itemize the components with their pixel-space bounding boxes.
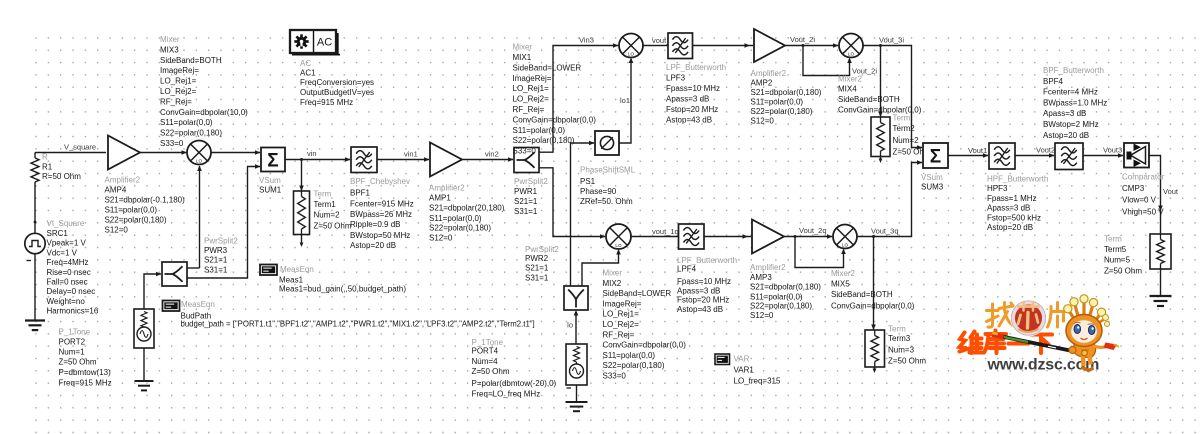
svg-text:Z=50 Ohm: Z=50 Ohm — [1104, 267, 1142, 276]
svg-text:S22=polar(0,180): S22=polar(0,180) — [751, 107, 813, 116]
svg-text:RF_Rej=: RF_Rej= — [160, 97, 192, 106]
svg-text:S22=polar(0,180): S22=polar(0,180) — [105, 216, 167, 225]
mixer MIX5 — [831, 225, 915, 311]
svg-text:PORT2: PORT2 — [59, 338, 86, 347]
svg-text:SUM1: SUM1 — [259, 186, 282, 195]
wire AMP1 to PWR1 net vin2 — [462, 159, 513, 161]
svg-text:vout_1q: vout_1q — [652, 227, 679, 236]
watermark magnifier with xin — [1011, 301, 1045, 335]
wire PWR3 bottom output to SUM1 input 2 — [187, 167, 260, 279]
svg-text:ConvGain=dbpolar(0,0): ConvGain=dbpolar(0,0) — [513, 115, 597, 124]
svg-text:MeasEqn: MeasEqn — [280, 265, 314, 274]
svg-text:ConvGain=dbpolar(10,0): ConvGain=dbpolar(10,0) — [160, 108, 248, 117]
svg-text:Term: Term — [893, 114, 911, 123]
svg-text:Fstop=20 MHz: Fstop=20 MHz — [677, 296, 729, 305]
svg-text:LPF4: LPF4 — [677, 264, 697, 273]
svg-text:Fcenter=4 MHz: Fcenter=4 MHz — [1043, 88, 1098, 97]
svg-text:Meas1=bud_gain(,,50,budget_pat: Meas1=bud_gain(,,50,budget_path) — [279, 284, 406, 293]
svg-text:LO_Rej2=: LO_Rej2= — [513, 95, 550, 104]
wire PORT2 to PWR3 input — [144, 274, 161, 309]
svg-text:Freq=LO_freq MHz: Freq=LO_freq MHz — [472, 389, 541, 398]
wire R1 branch down to SRC1 — [34, 153, 36, 159]
svg-text:BPF4: BPF4 — [1043, 77, 1064, 86]
svg-text:VSum: VSum — [921, 173, 943, 182]
svg-text:LO_Rej2=: LO_Rej2= — [603, 320, 640, 329]
svg-text:R=50 Ohm: R=50 Ohm — [42, 172, 81, 181]
svg-text:vin: vin — [307, 149, 317, 158]
wire MIX1 to LPF3 — [643, 45, 668, 47]
svg-text:LPF3: LPF3 — [666, 74, 686, 83]
svg-text:SUM3: SUM3 — [921, 183, 944, 192]
svg-text:MIX1: MIX1 — [513, 53, 532, 62]
svg-text:R: R — [42, 153, 48, 162]
svg-text:Term: Term — [314, 190, 332, 199]
svg-text:LO_Rej1=: LO_Rej1= — [160, 77, 197, 86]
svg-text:AC: AC — [317, 37, 332, 49]
svg-text:OutputBudgetIV=yes: OutputBudgetIV=yes — [300, 88, 374, 97]
wire CMP3 output to Term5 net Vout — [1149, 156, 1161, 235]
svg-text:HPF3: HPF3 — [987, 184, 1008, 193]
wire MIX2 to LPF4 net vout_1q — [631, 236, 679, 238]
svg-text:Term1: Term1 — [314, 200, 337, 209]
svg-text:S12=0: S12=0 — [750, 311, 774, 320]
svg-text:PhaseShiftSML: PhaseShiftSML — [580, 166, 636, 175]
wire PORT4 to ground — [576, 385, 578, 402]
comparator CMP3 — [1122, 143, 1165, 217]
svg-text:S21=dbpolar(0,180): S21=dbpolar(0,180) — [751, 88, 822, 97]
svg-text:Num=3: Num=3 — [888, 346, 915, 355]
port PORT4 P_1Tone — [472, 338, 588, 399]
svg-text:VAR: VAR — [734, 355, 750, 364]
svg-text:Vpeak=1 V: Vpeak=1 V — [47, 239, 87, 248]
svg-text:S21=1: S21=1 — [514, 197, 538, 206]
svg-text:LPF_Butterworth: LPF_Butterworth — [666, 63, 726, 72]
wire SUM3 output to HPF3 net Vout1 — [948, 155, 988, 157]
svg-text:Vdc=1 V: Vdc=1 V — [47, 248, 78, 257]
svg-text:Num=4: Num=4 — [472, 357, 499, 366]
svg-text:Vt_Square: Vt_Square — [47, 219, 85, 228]
wire PWR1 bottom output to MIX2 — [539, 168, 605, 237]
svg-text:S31=1: S31=1 — [525, 274, 549, 283]
svg-text:S11=polar(0,0): S11=polar(0,0) — [603, 351, 656, 360]
svg-text:BWstop=50 MHz: BWstop=50 MHz — [350, 231, 410, 240]
svg-text:P=polar(dbmtow(-20),0): P=polar(dbmtow(-20),0) — [472, 379, 557, 388]
svg-text:Phase=90: Phase=90 — [580, 187, 617, 196]
svg-text:S11=polar(0,0): S11=polar(0,0) — [105, 206, 158, 215]
svg-text:Astop=20 dB: Astop=20 dB — [987, 223, 1033, 232]
wire PWR2 left output to PS1 — [571, 143, 595, 286]
svg-text:SideBand=LOWER: SideBand=LOWER — [513, 63, 582, 72]
svg-text:Vin3: Vin3 — [579, 36, 594, 45]
svg-text:S21=dbpolar(20,180): S21=dbpolar(20,180) — [429, 204, 505, 213]
svg-text:Term: Term — [1104, 235, 1122, 244]
svg-text:PORT4: PORT4 — [472, 347, 499, 356]
svg-text:S21=dbpolar(-0.1,180): S21=dbpolar(-0.1,180) — [105, 196, 186, 205]
svg-text:FreqConversion=yes: FreqConversion=yes — [300, 78, 374, 87]
svg-text:Mixer: Mixer — [603, 269, 623, 278]
svg-text:Z=50 Ohm: Z=50 Ohm — [888, 356, 926, 365]
svg-text:S22=polar(0,180): S22=polar(0,180) — [603, 361, 665, 370]
wire AMP3 to MIX5 net Vout_2q — [784, 236, 832, 238]
svg-text:Vout_3q: Vout_3q — [871, 227, 899, 236]
svg-text:R1: R1 — [42, 163, 53, 172]
band-pass filter BPF1 — [350, 147, 414, 250]
svg-text:LO_freq=315: LO_freq=315 — [734, 377, 781, 386]
svg-text:AC: AC — [300, 59, 311, 68]
svg-text:Amplifier2: Amplifier2 — [429, 184, 465, 193]
svg-text:lo: lo — [567, 321, 573, 330]
resistor R1 — [31, 153, 81, 183]
svg-text:BWstop=2 MHz: BWstop=2 MHz — [1043, 120, 1099, 129]
svg-text:LO_Rej2=: LO_Rej2= — [160, 87, 197, 96]
svg-text:S31=1: S31=1 — [514, 207, 538, 216]
svg-text:Amplifier2: Amplifier2 — [751, 69, 787, 78]
svg-text:Term3: Term3 — [888, 334, 911, 343]
svg-text:PS1: PS1 — [580, 177, 596, 186]
wire BPF1 to AMP1 net vin1 — [377, 159, 429, 161]
wire AMP4 output to MIX3 — [140, 152, 186, 154]
svg-text:Z=50 Ohm: Z=50 Ohm — [59, 358, 97, 367]
wire MIX4 output to SUM3 net Vout_3i — [863, 46, 922, 148]
svg-text:S22=polar(0,180): S22=polar(0,180) — [750, 302, 812, 311]
wire PORT4 to PWR2 net lo — [575, 312, 577, 345]
wire PWR2 right output to MIX2 LO — [582, 251, 619, 287]
svg-text:Fstop=500 kHz: Fstop=500 kHz — [987, 213, 1041, 222]
svg-text:Σ: Σ — [930, 146, 941, 167]
svg-text:Term2: Term2 — [893, 124, 916, 133]
svg-text:vin1: vin1 — [404, 150, 418, 159]
svg-text:Vout_2i: Vout_2i — [790, 35, 815, 44]
svg-text:PWR1: PWR1 — [514, 187, 538, 196]
svg-text:S11=polar(0,0): S11=polar(0,0) — [751, 98, 804, 107]
svg-text:Freq=915 MHz: Freq=915 MHz — [300, 98, 353, 107]
port PORT2 P_1Tone — [59, 309, 155, 388]
svg-text:S22=polar(0,180): S22=polar(0,180) — [429, 224, 491, 233]
wire LPF3 to AMP2 — [692, 45, 753, 47]
svg-text:S11=polar(0,0): S11=polar(0,0) — [513, 126, 566, 135]
svg-text:HPF_Butterworth: HPF_Butterworth — [987, 175, 1048, 184]
terminator Term2 — [871, 114, 931, 157]
svg-text:S21=1: S21=1 — [204, 256, 228, 265]
svg-text:LO: LO — [615, 243, 622, 248]
svg-text:Num=2: Num=2 — [893, 136, 920, 145]
svg-text:AMP1: AMP1 — [429, 194, 451, 203]
svg-text:Num=5: Num=5 — [1104, 256, 1131, 265]
watermark text zhao (find) — [987, 303, 1014, 328]
amplifier AMP2 — [751, 29, 822, 126]
svg-text:RF_Rej=: RF_Rej= — [603, 330, 635, 339]
svg-text:PwrSplit2: PwrSplit2 — [204, 237, 238, 246]
svg-text:P=dbmtow(13): P=dbmtow(13) — [59, 368, 112, 377]
svg-text:PWR3: PWR3 — [204, 246, 228, 255]
wire Term2 branch — [880, 46, 882, 118]
svg-text:Harmonics=16: Harmonics=16 — [47, 307, 99, 316]
source SRC1 Vt_Square — [25, 219, 99, 316]
svg-text:LO: LO — [196, 158, 203, 163]
power splitter PWR2 — [525, 245, 588, 310]
svg-text:Astop=43 dB: Astop=43 dB — [666, 115, 712, 124]
svg-text:lo1: lo1 — [620, 96, 630, 105]
svg-text:BPF1: BPF1 — [350, 189, 371, 198]
svg-text:Amplifier2: Amplifier2 — [105, 176, 141, 185]
wire PORT2 to ground — [143, 348, 145, 381]
svg-text:LO_Rej1=: LO_Rej1= — [513, 84, 550, 93]
svg-text:Term5: Term5 — [1104, 245, 1127, 254]
wire MIX5 output to SUM3 net Vout_3q — [857, 163, 922, 237]
svg-text:Vout3: Vout3 — [1103, 146, 1122, 155]
svg-text:LO: LO — [628, 51, 635, 56]
svg-text:Term: Term — [888, 324, 906, 333]
svg-text:Apass=3 dB: Apass=3 dB — [666, 95, 709, 104]
svg-text:SideBand=BOTH: SideBand=BOTH — [838, 95, 900, 104]
measurement equation BudPath — [163, 300, 535, 329]
power splitter PWR3 — [162, 237, 238, 287]
svg-text:Vout1: Vout1 — [968, 146, 987, 155]
svg-text:Num=1: Num=1 — [59, 348, 86, 357]
svg-text:ImageRej=: ImageRej= — [160, 66, 199, 75]
svg-text:S11=polar(0,0): S11=polar(0,0) — [750, 292, 803, 301]
svg-text:AMP3: AMP3 — [750, 273, 772, 282]
power splitter PWR1 — [514, 148, 548, 217]
svg-text:Vout_2q: Vout_2q — [799, 226, 827, 235]
svg-text:S12=0: S12=0 — [751, 117, 775, 126]
wire MIX5 LO feedback branch — [795, 237, 844, 268]
wire AMP2 to MIX4 net Vout_2i — [784, 45, 838, 47]
svg-text:MIX3: MIX3 — [160, 45, 179, 54]
svg-text:V_square: V_square — [64, 143, 96, 152]
watermark mascot — [1064, 295, 1119, 371]
svg-text:Vhigh=50 V: Vhigh=50 V — [1122, 208, 1164, 217]
wire PS1 output to MIX1 LO net lo1 — [619, 59, 631, 143]
phase shifter PS1 — [580, 131, 636, 206]
svg-text:S11=polar(0,0): S11=polar(0,0) — [160, 118, 213, 127]
ground below Term5 — [1150, 295, 1172, 297]
wire MIX4 LO feedback branch — [803, 46, 850, 76]
svg-text:S31=1: S31=1 — [204, 265, 228, 274]
svg-text:Σ: Σ — [267, 150, 278, 171]
svg-text:VSum: VSum — [259, 176, 281, 185]
svg-text:Astop=20 dB: Astop=20 dB — [1043, 131, 1089, 140]
mixer MIX4 — [838, 34, 922, 115]
svg-text:LO: LO — [848, 51, 855, 56]
wire Term5 to ground — [1160, 269, 1162, 296]
wire PWR3 top output — [187, 267, 200, 269]
svg-text:Fpass=10 MHz: Fpass=10 MHz — [666, 84, 720, 93]
svg-text:Mixer: Mixer — [513, 43, 533, 52]
wire MIX3 LO riser from PWR3 — [199, 166, 201, 268]
svg-text:PwrSplit2: PwrSplit2 — [525, 245, 559, 254]
wire MIX3 output to SUM1 — [211, 152, 260, 154]
svg-text:Apass=3 dB: Apass=3 dB — [987, 204, 1030, 213]
svg-text:VAR1: VAR1 — [734, 366, 755, 375]
svg-text:Fpass=10 MHz: Fpass=10 MHz — [677, 277, 731, 286]
terminator Term1 — [294, 190, 352, 235]
AC simulation controller AC1 — [290, 30, 374, 107]
svg-text:AC1: AC1 — [300, 69, 316, 78]
ground below PORT2 — [135, 380, 154, 382]
svg-text:Delay=0 nsec: Delay=0 nsec — [47, 287, 96, 296]
svg-text:MIX2: MIX2 — [603, 279, 622, 288]
low-pass filter LPF4 — [677, 224, 737, 314]
svg-text:PWR2: PWR2 — [525, 254, 549, 263]
svg-text:BWpass=26 MHz: BWpass=26 MHz — [350, 210, 412, 219]
svg-text:BWpass=1.0 MHz: BWpass=1.0 MHz — [1043, 98, 1107, 107]
svg-text:Mixer2: Mixer2 — [831, 269, 856, 278]
svg-text:BPF_Chebyshev: BPF_Chebyshev — [350, 177, 410, 186]
mixer MIX1 — [513, 34, 644, 156]
summer SUM3 — [921, 143, 948, 192]
svg-text:Apass=3 dB: Apass=3 dB — [677, 286, 720, 295]
svg-text:Fpass=1 MHz: Fpass=1 MHz — [987, 194, 1037, 203]
svg-text:Amplifier2: Amplifier2 — [750, 263, 786, 272]
band-pass filter BPF4 — [1043, 66, 1107, 170]
low-pass filter LPF3 — [666, 33, 726, 124]
svg-text:Vout2: Vout2 — [1036, 146, 1055, 155]
svg-text:ImageRej=: ImageRej= — [513, 74, 552, 83]
wire BPF4 to CMP3 net Vout3 — [1083, 155, 1123, 157]
svg-text:AMP2: AMP2 — [751, 79, 773, 88]
svg-text:Num=2: Num=2 — [314, 211, 341, 220]
svg-text:S21=1: S21=1 — [525, 264, 549, 273]
wire input net V_square — [35, 152, 106, 154]
watermark text pian (piece) — [1048, 303, 1064, 328]
svg-text:Vlow=0 V: Vlow=0 V — [1122, 196, 1157, 205]
svg-text:Comparator: Comparator — [1122, 172, 1165, 181]
terminator Term5 — [1104, 234, 1171, 276]
svg-text:MIX5: MIX5 — [831, 280, 850, 289]
svg-text:S11=polar(0,0): S11=polar(0,0) — [429, 214, 482, 223]
svg-text:Z=50 Ohm: Z=50 Ohm — [314, 222, 352, 231]
svg-text:Mixer: Mixer — [160, 35, 180, 44]
ground below SRC1 — [25, 319, 45, 321]
svg-text:S22=polar(0,180): S22=polar(0,180) — [160, 129, 222, 138]
svg-text:Freq=4MHz: Freq=4MHz — [47, 258, 89, 267]
svg-text:S33=0: S33=0 — [603, 372, 627, 381]
svg-text:SideBand=LOWER: SideBand=LOWER — [603, 289, 672, 298]
watermark url www.dzsc.com — [987, 357, 1100, 374]
svg-text:SideBand=BOTH: SideBand=BOTH — [160, 56, 222, 65]
svg-text:LO: LO — [842, 242, 849, 247]
svg-text:P_1Tone: P_1Tone — [472, 338, 504, 347]
svg-text:S22=polar(0,180): S22=polar(0,180) — [513, 136, 575, 145]
svg-text:Astop=20 dB: Astop=20 dB — [350, 241, 396, 250]
wire HPF3 to BPF4 net Vout2 — [1015, 155, 1054, 157]
svg-text:Meas1: Meas1 — [279, 276, 304, 285]
svg-text:SideBand=BOTH: SideBand=BOTH — [831, 290, 893, 299]
svg-text:MeasEqn: MeasEqn — [181, 300, 215, 309]
wire Term3 branch — [873, 237, 875, 331]
svg-text:Vout_3i: Vout_3i — [879, 36, 904, 45]
wire SUM1 output net vin — [285, 159, 350, 161]
svg-text:Ripple=0.9 dB: Ripple=0.9 dB — [350, 220, 400, 229]
high-pass filter HPF3 — [987, 143, 1048, 232]
svg-text:S12=0: S12=0 — [429, 234, 453, 243]
watermark rod (magnifier handle) — [992, 332, 1076, 352]
watermark text weiku yixia — [960, 331, 1053, 354]
svg-text:S33=0: S33=0 — [513, 147, 537, 156]
wire PWR1 top output to MIX1 net Vin3 — [539, 46, 618, 153]
svg-text:Vout_2i: Vout_2i — [852, 67, 877, 76]
svg-text:Weight=no: Weight=no — [47, 297, 86, 306]
measurement equation Meas1 — [260, 265, 406, 294]
summer SUM1 — [259, 148, 285, 195]
amplifier AMP4 — [105, 136, 186, 235]
amplifier AMP3 — [750, 220, 821, 321]
svg-text:Fcenter=915 MHz: Fcenter=915 MHz — [350, 200, 414, 209]
svg-text:MIX4: MIX4 — [838, 85, 857, 94]
wire Term1 branch — [301, 160, 303, 192]
svg-text:Fstop=20 MHz: Fstop=20 MHz — [666, 105, 718, 114]
svg-text:PwrSplit2: PwrSplit2 — [514, 177, 548, 186]
svg-text:P_1Tone: P_1Tone — [59, 328, 91, 337]
svg-text:S33=0: S33=0 — [160, 139, 184, 148]
svg-text:ConvGain=dbpolar(0,0): ConvGain=dbpolar(0,0) — [603, 341, 687, 350]
svg-text:vin2: vin2 — [485, 150, 499, 159]
svg-text:BPF_Butterworth: BPF_Butterworth — [1043, 66, 1104, 75]
svg-text:Mixer2: Mixer2 — [838, 75, 863, 84]
svg-text:ZRef=50. Ohm: ZRef=50. Ohm — [580, 197, 633, 206]
mixer MIX3 — [160, 35, 248, 165]
svg-text:Rise=0 nsec: Rise=0 nsec — [47, 268, 91, 277]
svg-text:budget_path = ["PORT1.t1","BPF: budget_path = ["PORT1.t1","BPF1.t2","AMP… — [181, 320, 535, 329]
svg-text:S21=dbpolar(0,180): S21=dbpolar(0,180) — [750, 282, 821, 291]
svg-text:ImageRej=: ImageRej= — [603, 299, 642, 308]
wire LPF4 to AMP3 — [704, 236, 751, 238]
svg-text:SRC1: SRC1 — [47, 229, 69, 238]
svg-text:Fall=0 nsec: Fall=0 nsec — [47, 278, 88, 287]
svg-text:AMP4: AMP4 — [105, 186, 127, 195]
mixer MIX2 — [603, 224, 687, 381]
svg-text:RF_Rej=: RF_Rej= — [513, 105, 545, 114]
terminator Term3 — [865, 324, 926, 367]
amplifier AMP1 — [429, 143, 505, 243]
svg-text:Freq=915 MHz: Freq=915 MHz — [59, 379, 112, 388]
svg-text:S12=0: S12=0 — [105, 226, 129, 235]
svg-text:ConvGain=dbpolar(0,0): ConvGain=dbpolar(0,0) — [831, 302, 915, 311]
svg-text:Apass=3 dB: Apass=3 dB — [1043, 109, 1086, 118]
variable block VAR1 — [715, 354, 781, 386]
svg-text:LO_Rej1=: LO_Rej1= — [603, 310, 640, 319]
ground below PORT4 — [566, 401, 588, 403]
svg-text:Z=50 Ohm: Z=50 Ohm — [472, 367, 510, 376]
svg-text:CMP3: CMP3 — [1122, 184, 1145, 193]
svg-text:Astop=43 dB: Astop=43 dB — [677, 305, 723, 314]
svg-text:Vout: Vout — [1163, 187, 1179, 196]
